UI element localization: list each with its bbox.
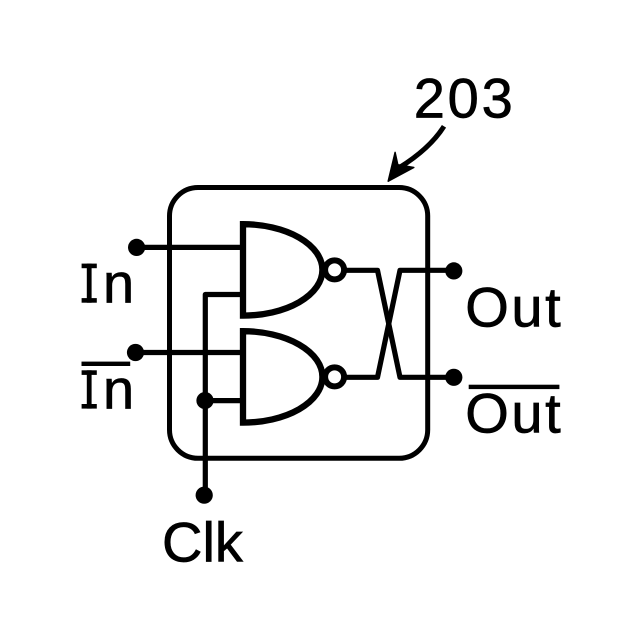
- svg-text:Out: Out: [465, 276, 563, 339]
- wire: Clk net (vertical riser to top gate lower input): [204, 295, 243, 496]
- label nOut (with overline): [465, 382, 563, 445]
- node dot: In terminal: [128, 239, 145, 256]
- node dot: nIn terminal: [127, 344, 144, 361]
- NAND gate U2 body (bottom): [243, 331, 322, 422]
- wire: In input: [137, 245, 243, 250]
- wire: nIn input: [136, 350, 244, 355]
- svg-text:203: 203: [414, 66, 516, 129]
- svg-text:n: n: [103, 252, 134, 315]
- svg-text:Out: Out: [465, 382, 563, 445]
- node dot: Clk terminal: [196, 487, 213, 504]
- wire: bottom gate output to Out (crossing up): [345, 270, 454, 377]
- latch block outline U203: [170, 188, 428, 459]
- node dot: Out terminal: [445, 262, 462, 279]
- label In: [82, 252, 135, 315]
- wire: top gate output to nOut (crossing down): [345, 270, 454, 377]
- NAND gate U1 inversion bubble: [325, 260, 344, 279]
- leader arrow for 203: [388, 126, 444, 181]
- node dot: nOut terminal: [445, 369, 462, 386]
- node dot: Clk junction: [196, 392, 213, 409]
- svg-text:Clk: Clk: [162, 511, 244, 574]
- svg-text:n: n: [103, 358, 134, 421]
- wire: Clk branch to bottom gate lower input: [205, 398, 243, 403]
- label nIn (with overline): [82, 358, 135, 421]
- NAND gate U1 body (top): [243, 224, 322, 315]
- NAND gate U2 inversion bubble: [325, 367, 344, 386]
